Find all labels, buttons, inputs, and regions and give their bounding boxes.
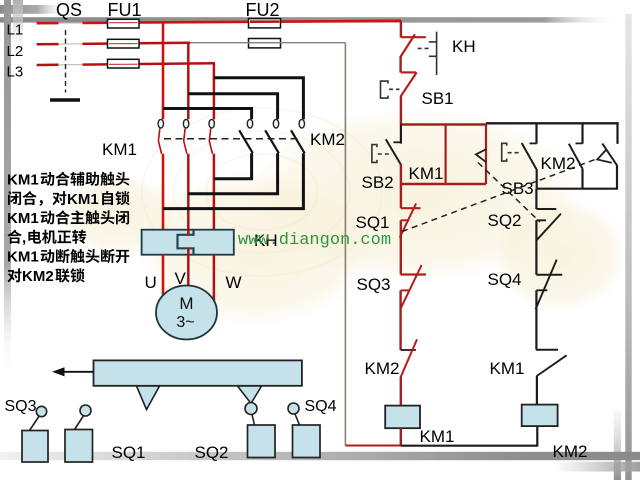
- wire control left rail: [344, 43, 346, 446]
- svg-text:M: M: [179, 294, 193, 313]
- wire W column (L3 drop): [213, 63, 216, 231]
- svg-text:SQ1: SQ1: [112, 443, 146, 462]
- svg-text:KM2: KM2: [553, 442, 588, 461]
- fuse FU2 lower: [249, 39, 281, 48]
- svg-text:KM1: KM1: [490, 359, 525, 378]
- thermal contact KH (NC): [400, 34, 425, 57]
- svg-text:3~: 3~: [176, 314, 194, 331]
- wire control top rail (black part): [486, 122, 619, 124]
- contactor KM2 aux self-lock contact (open): [569, 123, 583, 188]
- fuse FU1 L1: [108, 19, 140, 28]
- limit switch SQ1 NC contact: [400, 184, 421, 275]
- wire U to motor: [162, 255, 165, 296]
- limit switch SQ2 NO contact (closed, with wedge): [476, 125, 487, 185]
- svg-text:KM2: KM2: [22, 268, 54, 285]
- svg-text:SQ2: SQ2: [195, 443, 229, 462]
- limit switch SQ2 body: [245, 403, 275, 458]
- svg-text:SQ4: SQ4: [305, 398, 337, 415]
- wire control hot drop (L1 to KH contact): [400, 21, 402, 38]
- svg-text:KM1: KM1: [420, 427, 455, 446]
- svg-text:KM2: KM2: [365, 359, 400, 378]
- svg-text:SB3: SB3: [502, 179, 534, 198]
- svg-text:KH: KH: [452, 37, 476, 56]
- contactor KM1 main contact 3 (closed): [209, 119, 214, 153]
- svg-text:W: W: [226, 273, 242, 292]
- wire SB1 to rail node: [400, 97, 402, 125]
- wire KM2 feed from U: [163, 109, 252, 120]
- wire U column (L1 drop): [162, 21, 165, 231]
- svg-text:SB2: SB2: [362, 173, 394, 192]
- coil KM2: [522, 405, 558, 427]
- pushbutton SB3 actuator: [502, 143, 520, 161]
- svg-text:L3: L3: [7, 64, 24, 81]
- motor M1: [156, 286, 217, 340]
- contactor KM2 main contact 2 (open): [265, 119, 279, 153]
- mechanical link SQ2 (dashed diagonal): [478, 163, 540, 223]
- limit switch SQ4 body: [288, 403, 320, 458]
- limit switch SQ3 body: [22, 406, 48, 462]
- limit switch SQ1 body: [65, 405, 93, 462]
- disconnect switch QS linkage (dashed): [65, 30, 67, 93]
- svg-text:SQ2: SQ2: [488, 211, 522, 230]
- limit switch SQ3 NC contact: [401, 265, 426, 350]
- wire KM2 feed from V: [188, 94, 277, 120]
- limit switch SQ4 NC contact: [536, 260, 563, 350]
- svg-text:KM2: KM2: [310, 130, 345, 149]
- cam dog 1: [137, 386, 160, 410]
- svg-text:KM1: KM1: [7, 210, 39, 227]
- thermal relay KH actuator symbol: [418, 32, 437, 75]
- wire control top rail (red part): [401, 123, 486, 125]
- svg-text:KM1: KM1: [102, 140, 137, 159]
- wire V column (L2 drop): [187, 43, 190, 235]
- svg-text:KM1: KM1: [67, 191, 99, 208]
- annotation text block (Chinese): [7, 172, 130, 286]
- wire W to motor: [213, 255, 216, 301]
- wire V to motor: [187, 230, 190, 286]
- svg-text:L1: L1: [7, 22, 24, 39]
- pushbutton SB1 contact: [400, 72, 416, 97]
- mechanical link SQ1 (dashed diagonal): [402, 159, 597, 232]
- svg-text:QS: QS: [56, 0, 82, 20]
- svg-text:SQ3: SQ3: [357, 275, 391, 294]
- wire L1 phase line: [37, 21, 401, 23]
- cam dog 2: [238, 386, 262, 404]
- wire KM1 coil to bottom rail: [400, 428, 402, 445]
- svg-text:FU2: FU2: [246, 0, 280, 20]
- pushbutton SB1 actuator: [381, 81, 400, 98]
- contactor KM1 main contact 2 (closed): [183, 119, 188, 153]
- svg-text:L2: L2: [7, 43, 24, 60]
- contactor KM2 main contact 3 (open): [291, 119, 305, 153]
- fuse FU2 upper: [249, 19, 281, 28]
- wire control return from L2 to left rail: [190, 42, 345, 44]
- wire KM2 contact2 to V column: [188, 153, 277, 194]
- contactor KM1 aux self-lock contact (closed wire): [445, 125, 447, 185]
- pushbutton SB2 actuator: [372, 145, 392, 163]
- fuse FU1 L2: [108, 39, 140, 48]
- wire L2 phase line: [37, 43, 190, 45]
- svg-text:,: ,: [22, 229, 26, 246]
- wire control sub-rail (black): [537, 188, 619, 190]
- contactor KM2 main contact 1 (open): [239, 119, 253, 153]
- limit switch SQ1 NO contact (open, with wedge): [597, 123, 617, 188]
- contactor KM1 main contact 1 (closed): [158, 119, 163, 153]
- disconnect switch QS contact L2 (thin gap line): [59, 43, 83, 45]
- svg-text:www.diangon.com: www.diangon.com: [238, 231, 391, 250]
- wire SB2 bottom lead: [400, 164, 402, 184]
- wire control bottom rail (red part): [345, 445, 400, 447]
- fuse FU1 L3: [108, 59, 140, 68]
- limit switch SQ2 NC contact: [536, 189, 561, 275]
- svg-text:SB1: SB1: [422, 89, 454, 108]
- wire KM2 feed from W: [214, 78, 304, 120]
- wire SB3 bottom lead: [536, 170, 538, 189]
- wire self-lock bottom rail (red): [401, 183, 486, 185]
- svg-text:KM1: KM1: [409, 164, 444, 183]
- thermal relay KH heater element: [178, 231, 194, 255]
- wire KH to SB1: [399, 57, 401, 73]
- contactor KM1 NC interlock contact (open): [536, 350, 567, 405]
- pushbutton SB3 lead+tick: [530, 123, 537, 143]
- mechanical link dashes of main contacts: [164, 138, 301, 140]
- thermal relay KH heater box: [142, 230, 234, 255]
- contactor KM2 NC interlock contact (open): [401, 339, 417, 405]
- wire L3 phase line: [37, 63, 215, 65]
- svg-text:SQ4: SQ4: [488, 270, 522, 289]
- pushbutton SB3 contact blade: [522, 143, 537, 170]
- svg-text:SQ1: SQ1: [356, 213, 390, 232]
- motion arrow: [52, 367, 94, 376]
- disconnect switch QS bar: [50, 98, 80, 102]
- svg-text:KM2: KM2: [541, 154, 576, 173]
- wire KM2 contact3 to U column: [163, 153, 303, 208]
- wire KM2 contact1 to W column: [214, 153, 252, 179]
- svg-text:KM1: KM1: [7, 172, 39, 189]
- svg-text:SQ3: SQ3: [5, 398, 37, 415]
- conveyor table: [94, 360, 302, 385]
- svg-text:KM1: KM1: [7, 249, 39, 266]
- pushbutton SB2 contact blade: [386, 139, 401, 164]
- coil KM1: [385, 406, 420, 429]
- disconnect switch QS contact L1 (thin gap line): [59, 22, 83, 24]
- svg-text:FU1: FU1: [108, 0, 142, 20]
- disconnect switch QS contact L3 (thin gap line): [59, 64, 83, 66]
- pushbutton SB2 lead+tick: [393, 125, 401, 144]
- wire control bottom rail (black part): [401, 426, 538, 446]
- svg-text:U: U: [145, 273, 157, 292]
